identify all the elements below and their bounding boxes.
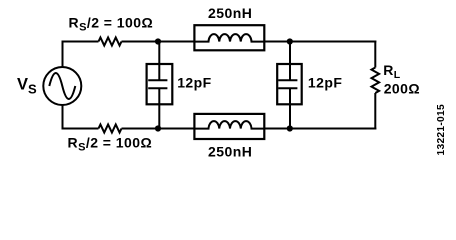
svg-text:VS: VS <box>17 76 37 97</box>
svg-text:RS/2 = 100Ω: RS/2 = 100Ω <box>68 134 153 153</box>
wire bottom rail segment 2 <box>122 128 195 130</box>
capacitor C1 lead bottom <box>158 88 160 128</box>
capacitor C2 lead bottom <box>289 88 291 128</box>
capacitor C1 box <box>147 64 173 104</box>
svg-text:12pF: 12pF <box>308 75 342 91</box>
inductor L1 coil <box>194 34 264 42</box>
label 250nH (top) <box>208 5 252 21</box>
svg-text:250nH: 250nH <box>208 5 252 21</box>
label RS/2 = 100 ohm (top) <box>69 15 154 34</box>
svg-text:RS/2 = 100Ω: RS/2 = 100Ω <box>69 15 154 34</box>
label 200 ohm <box>384 81 420 97</box>
wire left vertical top (source to top rail) <box>62 41 64 68</box>
wire top rail segment 3 <box>264 41 376 43</box>
svg-text:200Ω: 200Ω <box>384 81 420 97</box>
capacitor C1 plates <box>148 80 167 88</box>
resistor RS/2 bottom <box>99 125 122 133</box>
wire top rail segment 2 <box>122 41 195 43</box>
wire right vertical bottom <box>374 93 376 130</box>
resistor RS/2 top <box>99 38 122 46</box>
label 12pF (left) <box>177 75 211 91</box>
wire top rail segment 1 <box>62 41 99 43</box>
node junction top-left <box>155 38 161 44</box>
svg-text:250nH: 250nH <box>208 144 252 160</box>
capacitor C2 lead top <box>289 42 291 81</box>
resistor RL <box>372 68 380 94</box>
label RS/2 = 100 ohm (bottom) <box>68 134 153 153</box>
capacitor C2 plates <box>278 80 297 88</box>
capacitor C2 box <box>277 64 302 104</box>
node junction bottom-right <box>287 125 293 131</box>
label RL <box>383 62 400 81</box>
capacitor C1 lead top <box>158 42 160 81</box>
wire bottom rail segment 3 <box>264 128 376 130</box>
node junction top-right <box>287 38 293 44</box>
voltage source VS <box>43 67 81 105</box>
wire left vertical bottom (source to bottom rail) <box>62 105 64 130</box>
node junction bottom-left <box>155 125 161 131</box>
svg-text:RL: RL <box>383 62 400 81</box>
svg-text:12pF: 12pF <box>177 75 211 91</box>
wire bottom rail segment 1 <box>62 128 99 130</box>
label 250nH (bottom) <box>208 144 252 160</box>
inductor L1 box (top) <box>194 25 264 50</box>
label 12pF (right) <box>308 75 342 91</box>
label figure number 13221-015 <box>436 104 447 156</box>
inductor L2 coil <box>194 121 264 129</box>
inductor L2 box (bottom) <box>194 114 264 139</box>
wire right vertical top <box>374 41 376 68</box>
svg-text:13221-015: 13221-015 <box>436 104 447 156</box>
label VS <box>17 76 37 97</box>
